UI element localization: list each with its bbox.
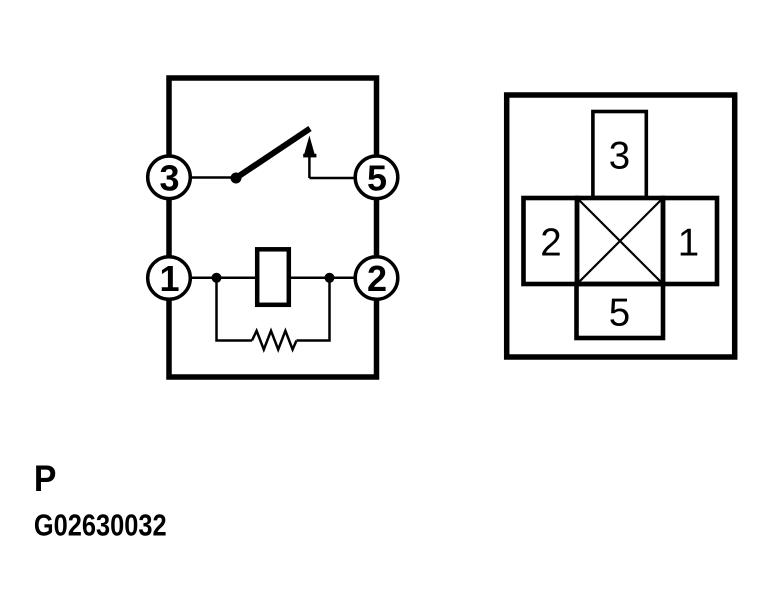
wire resistor to right junction (297, 278, 330, 341)
svg-text:P: P (34, 457, 57, 499)
svg-text:2: 2 (367, 258, 387, 299)
wire from pin 1 to coil (191, 277, 256, 280)
center keyway with X (577, 198, 663, 284)
pin 2 terminal (355, 257, 398, 300)
pin 1 terminal (148, 257, 191, 300)
pin cavity 2 (524, 198, 578, 284)
resistor (252, 331, 297, 350)
relay coil (257, 249, 289, 304)
switch arm (movable contact) (236, 129, 310, 179)
connector housing outline (507, 95, 735, 357)
pin cavity 5 (577, 284, 664, 338)
wire from coil to pin 2 (290, 277, 355, 280)
pin cavity 1 (663, 198, 717, 284)
wire from pin 3 to switch contact (191, 176, 236, 179)
svg-text:G02630032: G02630032 (34, 508, 167, 543)
wire from switch arrow to pin 5 (309, 177, 355, 180)
svg-text:1: 1 (159, 258, 179, 299)
switch actuator arrow (303, 136, 316, 179)
svg-text:3: 3 (159, 157, 179, 198)
junction node right of coil (325, 273, 335, 283)
svg-text:1: 1 (678, 222, 699, 265)
pin 3 terminal (148, 156, 191, 199)
svg-text:3: 3 (609, 135, 630, 178)
junction node left of coil (212, 273, 222, 283)
svg-text:5: 5 (367, 157, 387, 198)
pin 5 terminal (355, 156, 398, 199)
wire left junction down to resistor (217, 278, 253, 341)
switch contact junction dot (231, 173, 242, 184)
relay case outline (169, 78, 377, 377)
svg-text:5: 5 (609, 292, 630, 335)
pin cavity 3 (593, 112, 646, 198)
svg-text:2: 2 (540, 222, 561, 265)
